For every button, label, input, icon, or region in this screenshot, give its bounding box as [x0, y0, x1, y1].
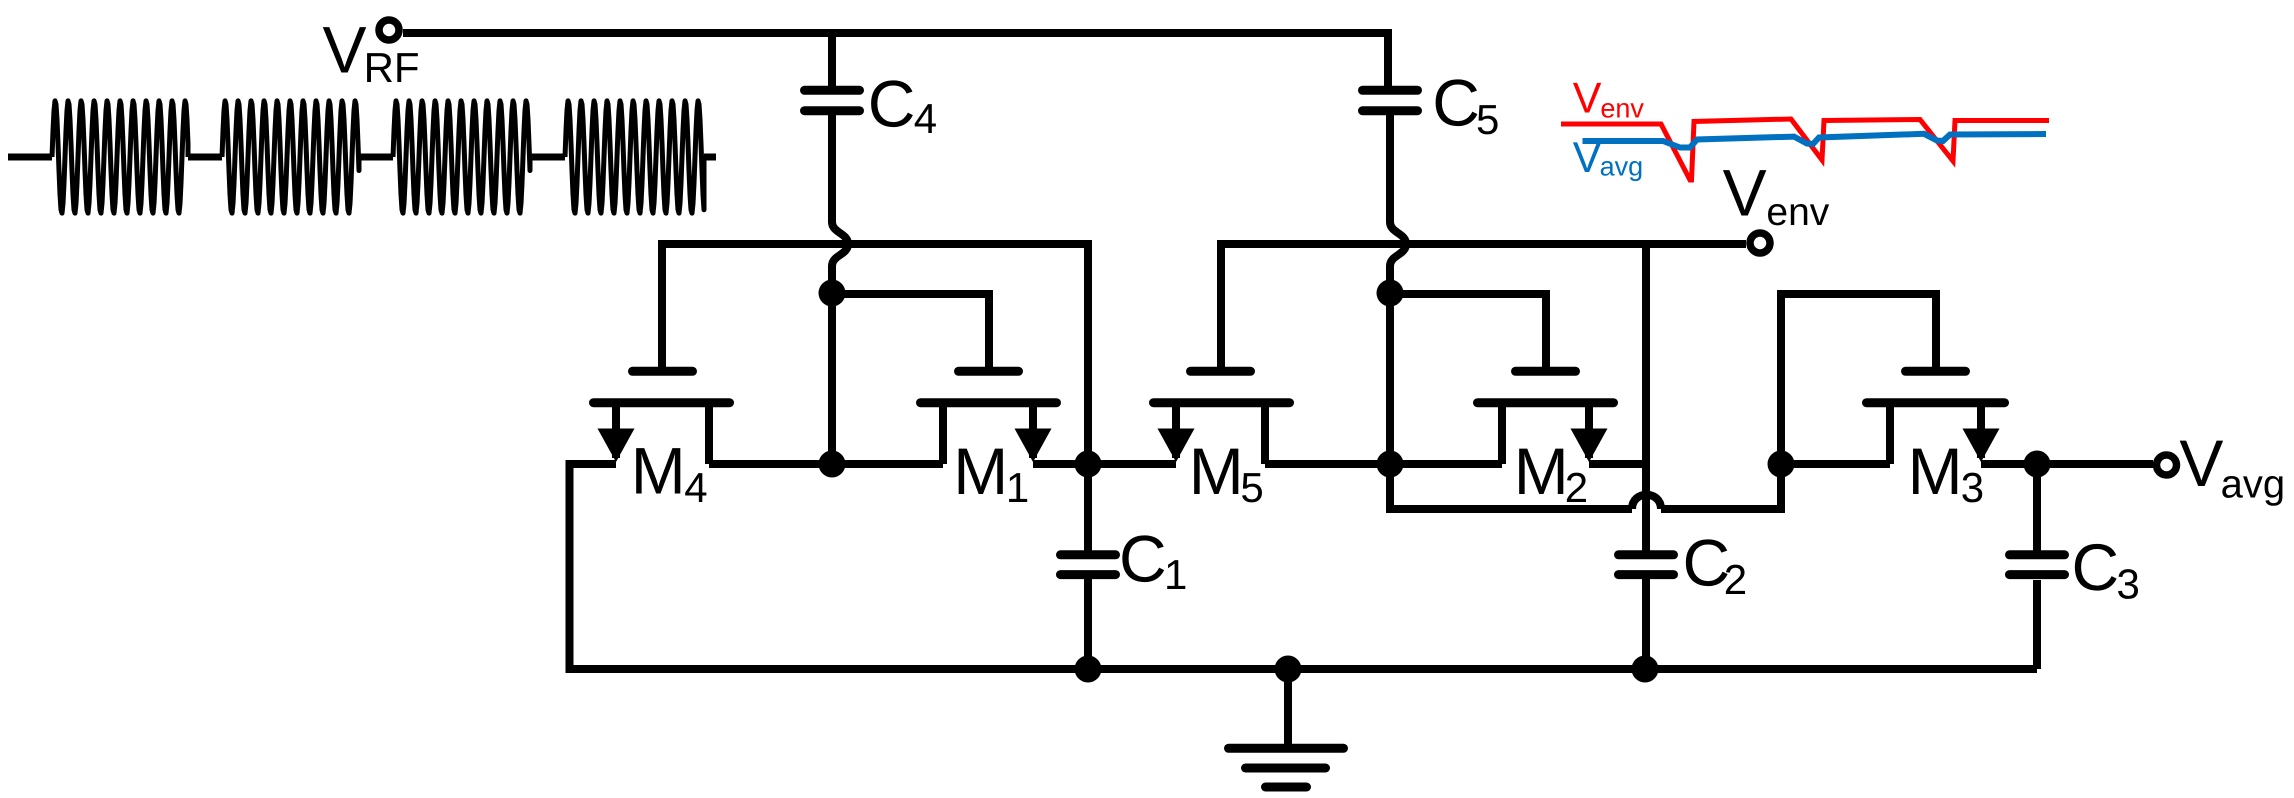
transistor M3 channel bar [1867, 398, 2005, 407]
wire M3 source link [1781, 460, 1890, 468]
capacitor C4 top plate [805, 86, 860, 95]
capacitor C1 bottom plate [1061, 570, 1116, 579]
wire M4 source to ground rail [570, 464, 617, 669]
label C2 [1683, 526, 1748, 604]
svg-text:env: env [1766, 191, 1829, 234]
wire M4 drain terminal [705, 407, 713, 464]
wire M1 drain terminal [1029, 407, 1037, 458]
waveform V_avg (blue) [1583, 134, 2047, 148]
junction C4/M1-gate node [819, 280, 846, 307]
transistor M3 gate bar [1906, 367, 1966, 376]
terminal V_env [1750, 233, 1770, 253]
wire M3 gate loop [1781, 294, 1936, 464]
wire hop over V_env vertical [1632, 495, 1661, 509]
wire C1 bottom [1084, 579, 1092, 669]
junction ground / rail [1275, 656, 1302, 683]
junction C5/M2-gate node [1377, 280, 1404, 307]
transistor M4 source arrow [598, 429, 635, 463]
svg-text:3: 3 [1961, 464, 1984, 511]
transistor M1 drain arrow [1015, 429, 1052, 463]
junction M4 drain / C4 node [819, 451, 846, 478]
wire hop C4 over gate bus [832, 222, 848, 266]
svg-text:3: 3 [2117, 561, 2140, 608]
svg-text:1: 1 [1164, 551, 1187, 598]
wire M5 drain to M2 source [1265, 460, 1502, 468]
transistor M5 channel bar [1154, 398, 1290, 407]
junction C2 / rail [1632, 656, 1659, 683]
svg-text:V: V [323, 13, 367, 87]
transistor M2 channel bar [1478, 398, 1614, 407]
wire M2 source terminal [1498, 407, 1506, 464]
wire M2 drain terminal [1585, 407, 1593, 458]
junction C1 / rail [1075, 656, 1102, 683]
svg-text:1: 1 [1006, 464, 1029, 511]
wire ground rail [570, 665, 2038, 669]
label C3 [2072, 530, 2140, 608]
svg-text:M: M [953, 434, 1008, 508]
label V_RF [323, 13, 420, 92]
capacitor C2 top plate [1619, 550, 1674, 559]
waveform V_env (red) [1561, 119, 2049, 180]
capacitor C3 bottom plate [2010, 570, 2065, 579]
capacitor C5 top plate [1363, 86, 1418, 95]
wire C3 bottom [2033, 580, 2041, 669]
svg-text:V: V [2179, 426, 2223, 500]
transistor M4 channel bar [594, 398, 730, 407]
transistor M5 source arrow [1158, 429, 1195, 463]
terminal V_RF [379, 20, 399, 40]
wire M2 source node route [1390, 464, 1632, 509]
label M3 [1908, 434, 1984, 511]
ground bar 2 [1246, 764, 1326, 773]
label C5 [1432, 66, 1499, 143]
transistor M5 gate bar [1191, 367, 1251, 376]
capacitor C2 bottom plate [1619, 570, 1674, 579]
transistor M3 drain arrow [1963, 429, 2000, 463]
capacitor C5 bottom plate [1363, 106, 1418, 115]
svg-text:C: C [1432, 66, 1480, 140]
wire M3 source terminal [1886, 407, 1894, 464]
wire C3 top [2033, 464, 2041, 551]
wire C5 lower [1386, 115, 1394, 222]
wire C4 top stub [828, 33, 836, 86]
wire M2 drain to V_env node [1589, 460, 1646, 468]
svg-text:2: 2 [1565, 464, 1588, 511]
junction M1 drain / C1 node [1075, 451, 1102, 478]
RF burst waveform bursts [52, 101, 704, 213]
wire ground stem [1284, 669, 1292, 744]
wire C4 to M4-M1 node [828, 266, 836, 464]
svg-text:avg: avg [2221, 463, 2286, 507]
wire V_env vertical to C2 [1642, 244, 1650, 551]
ground bar 1 [1229, 744, 1344, 753]
label M2 [1514, 434, 1588, 511]
wire V_RF top [403, 33, 1388, 86]
terminal V_avg [2157, 455, 2177, 475]
svg-text:M: M [1514, 434, 1569, 508]
wire M3 drain to V_avg [1981, 460, 2153, 468]
wire M1 drain to M5 source [1033, 460, 1176, 468]
capacitor C3 top plate [2010, 550, 2065, 559]
svg-text:M: M [1908, 434, 1963, 508]
svg-text:4: 4 [914, 95, 937, 142]
wire C4 lower [828, 115, 836, 222]
svg-text:C: C [1119, 522, 1167, 596]
ground bar 3 [1266, 783, 1307, 792]
label V_avg blue [1573, 134, 1643, 182]
label V_env [1723, 155, 1830, 234]
wire M5 source terminal [1172, 407, 1180, 458]
wire M3 drain terminal [1977, 407, 1985, 458]
transistor M1 channel bar [921, 398, 1057, 407]
svg-text:V: V [1723, 155, 1767, 229]
svg-text:env: env [1600, 94, 1644, 124]
label M1 [953, 434, 1029, 511]
wire C1 top [1084, 464, 1092, 551]
wire route to M3 source node [1661, 464, 1781, 509]
label M5 [1189, 434, 1264, 511]
wire C5 to M5-M2 node [1386, 266, 1394, 509]
capacitor C1 top plate [1061, 550, 1116, 559]
transistor M4 gate bar [633, 367, 693, 376]
wire M4 source terminal [612, 407, 620, 458]
junction M3 gate/source node [1768, 451, 1795, 478]
label V_env red [1573, 74, 1645, 123]
wire hop C5 over V_env bus [1390, 222, 1406, 266]
wire M5 drain terminal [1261, 407, 1269, 464]
svg-text:C: C [2072, 530, 2120, 604]
wire M5 gate bus to V_env [1221, 244, 1746, 368]
svg-text:5: 5 [1476, 96, 1499, 143]
capacitor C4 bottom plate [805, 106, 860, 115]
transistor M2 drain arrow [1571, 429, 1608, 463]
label C1 [1119, 522, 1187, 599]
svg-text:5: 5 [1240, 464, 1263, 511]
label M4 [631, 434, 708, 511]
svg-text:V: V [1573, 74, 1602, 122]
label V_avg [2179, 426, 2285, 507]
svg-text:4: 4 [684, 464, 707, 511]
transistor M2 gate bar [1516, 367, 1576, 376]
wire M1 source terminal [939, 407, 947, 464]
transistor M1 gate bar [959, 367, 1019, 376]
svg-text:V: V [1573, 134, 1602, 182]
wire C2 bottom [1642, 579, 1650, 669]
junction M3 drain / C3 node [2024, 451, 2051, 478]
svg-text:avg: avg [1600, 152, 1644, 182]
svg-text:2: 2 [1724, 556, 1747, 603]
label C4 [868, 67, 937, 143]
junction M5 drain / C5 node [1377, 451, 1404, 478]
svg-text:M: M [1189, 434, 1244, 508]
wire M2 gate branch [1390, 294, 1546, 368]
wire M4 drain to M1 source [709, 460, 943, 468]
svg-text:M: M [631, 434, 686, 508]
svg-text:C: C [868, 67, 916, 141]
RF burst waveform baseline [8, 154, 716, 161]
wire M4 gate bus to M1 drain [662, 244, 1088, 464]
svg-text:RF: RF [364, 44, 420, 91]
wire M1 gate branch [832, 294, 989, 368]
